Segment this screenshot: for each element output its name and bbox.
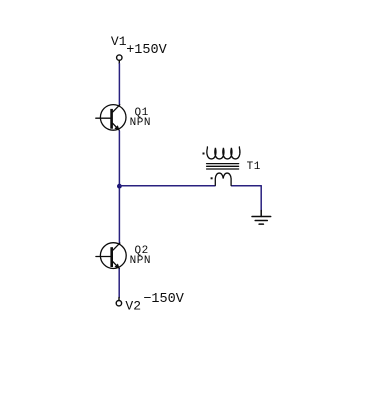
svg-text:NPN: NPN bbox=[130, 117, 151, 129]
svg-text:V2: V2 bbox=[125, 299, 141, 314]
T1 primary phase dot bbox=[203, 153, 205, 155]
T1 secondary winding bbox=[215, 173, 231, 185]
transistor Q1 bbox=[96, 105, 126, 131]
wire Q2 emitter to V2 terminal bbox=[118, 269, 120, 297]
svg-text:−150V: −150V bbox=[143, 292, 184, 307]
node A junction bbox=[117, 184, 122, 189]
svg-text:NPN: NPN bbox=[130, 255, 151, 267]
T1 primary winding bbox=[207, 147, 240, 159]
transistor Q2 bbox=[96, 243, 126, 269]
wire V1 to Q1 collector bbox=[118, 64, 120, 105]
T1 core bbox=[207, 163, 239, 165]
svg-text:T1: T1 bbox=[247, 161, 261, 173]
wire T1 secondary to corner bbox=[232, 185, 262, 187]
wire node A to Q2 collector bbox=[118, 188, 120, 243]
wire node A to T1 secondary bbox=[119, 185, 215, 187]
wire corner down to ground bbox=[260, 186, 262, 211]
node V2 terminal bbox=[116, 301, 121, 306]
node V1 terminal bbox=[117, 55, 122, 60]
wire Q1 emitter to node A bbox=[118, 131, 120, 184]
svg-text:+150V: +150V bbox=[126, 43, 167, 58]
T1 secondary phase dot bbox=[211, 177, 213, 179]
svg-text:V1: V1 bbox=[111, 34, 127, 49]
transformer T1 bbox=[203, 147, 240, 186]
ground bbox=[252, 211, 271, 225]
